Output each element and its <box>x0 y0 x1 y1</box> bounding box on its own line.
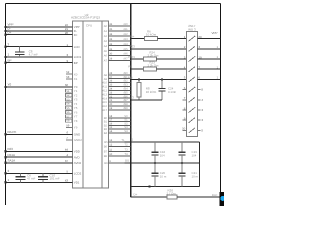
svg-text:2.7 Om: 2.7 Om <box>167 192 177 196</box>
svg-text:VDD: VDD <box>74 150 80 154</box>
svg-text:37: 37 <box>65 159 69 163</box>
IC pin 18 B0 stub to bus <box>104 115 131 120</box>
connector J1 right pin 3 stub <box>197 108 203 112</box>
IC pin 16 B2 stub to bus <box>104 122 131 127</box>
connector J1 left pin 3 <box>184 55 186 59</box>
svg-text:A12: A12 <box>102 90 107 93</box>
svg-text:/B8: /B8 <box>124 103 129 106</box>
wire net Y0 to IC pin 50 <box>4 83 77 90</box>
svg-text:PE: PE <box>128 65 132 69</box>
svg-text:4.7 mF: 4.7 mF <box>29 53 39 57</box>
capacitor C6 47uF <box>16 173 36 182</box>
svg-text:59: 59 <box>66 123 70 127</box>
IC pin 17 B1 stub to bus <box>104 119 131 124</box>
capacitor C21 10uF <box>179 163 199 187</box>
wire net 3 to IC pin 5 <box>4 169 81 176</box>
IC pin 34 A2 stub to bus <box>104 33 131 38</box>
IC pin 30 A6 stub to bus <box>104 53 131 58</box>
capacitor C10 104 <box>38 173 60 182</box>
svg-text:10: 10 <box>182 127 186 131</box>
wire net MB to connector pin 5 <box>128 75 186 80</box>
connector J1 right pin 8 stub <box>197 88 203 92</box>
resistor R6 10 Ohm <box>145 29 158 40</box>
IC pin 52 X0 stub <box>66 70 78 76</box>
svg-text:A3: A3 <box>104 40 108 43</box>
wire bottom rail <box>131 186 200 188</box>
svg-text:X1: X1 <box>74 77 78 81</box>
svg-text:A14: A14 <box>102 97 107 100</box>
IC pin 35 A1 stub to bus <box>104 28 131 33</box>
svg-text:A9: A9 <box>104 78 108 81</box>
svg-text:B1: B1 <box>104 121 108 124</box>
connector J1 right pin 20 wire to frame <box>197 31 220 39</box>
connector J1 right pin 19 wire to frame <box>197 55 220 59</box>
wire net BP to IC pin 9 <box>4 58 77 65</box>
capacitor C18 104 <box>151 142 165 163</box>
wire net KB.PK to IC pin 6 <box>4 130 80 137</box>
svg-text:/B6: /B6 <box>124 95 129 98</box>
svg-text:/A1: /A1 <box>124 28 129 31</box>
svg-text:10 m: 10 m <box>192 174 199 178</box>
wire net PE from bus <box>128 65 143 70</box>
IC pin 12 B6 stub to bus <box>104 144 131 149</box>
connector J1 left pin 8 <box>183 106 187 110</box>
svg-text:B3: B3 <box>104 128 108 131</box>
IC pin 31 A5 stub to bus <box>104 48 131 53</box>
svg-text:K03: K03 <box>8 147 14 151</box>
svg-text:0.1mF: 0.1mF <box>168 90 176 94</box>
IC pin 56 Y6 boxed number <box>66 110 78 114</box>
svg-text:MB: MB <box>128 75 133 79</box>
IC pin 36 A0 stub to bus <box>104 23 131 28</box>
svg-text:X0: X0 <box>74 72 78 76</box>
wire R26 to pad DA+ <box>177 193 220 197</box>
svg-text:A17: A17 <box>102 109 107 112</box>
svg-text:A7: A7 <box>104 60 108 63</box>
svg-text:B2: B2 <box>104 124 108 127</box>
svg-text:A10: A10 <box>102 82 107 85</box>
svg-text:LCD2: LCD2 <box>74 172 82 176</box>
IC pin 54 Y4 boxed number <box>66 102 78 106</box>
IC pin 25 A11 stub to bus <box>102 84 130 89</box>
svg-text:T3: T3 <box>124 148 128 151</box>
svg-text:B5: B5 <box>104 141 108 144</box>
resistor R23 2.2k Ohm <box>144 61 159 72</box>
svg-text:A6: A6 <box>104 55 108 58</box>
svg-text:/B3: /B3 <box>124 84 129 87</box>
svg-text:A13: A13 <box>102 93 107 96</box>
svg-text:19: 19 <box>198 55 202 59</box>
IC pin 58 Y8 boxed number <box>66 119 78 123</box>
pad DA+ with highlight <box>220 192 226 206</box>
svg-text:T1: T1 <box>121 139 125 142</box>
svg-text:BP: BP <box>74 61 78 65</box>
svg-text:T2: T2 <box>124 144 128 147</box>
connector J1 right pin 7 wire to frame <box>197 65 220 69</box>
svg-text:/B2: /B2 <box>124 80 129 83</box>
wire net VPP to IC pin 22 <box>4 23 79 30</box>
IC pin 24 A12 stub to bus <box>102 88 130 93</box>
svg-text:/B5: /B5 <box>124 91 129 94</box>
svg-text:/A4: /A4 <box>124 43 129 46</box>
svg-text:S3: S3 <box>124 126 128 129</box>
resistor R24 2.2k Ohm <box>144 50 159 61</box>
capacitor C19 104 <box>179 142 198 163</box>
svg-text:43: 43 <box>65 179 69 183</box>
connector J1 2N17 IND-3 <box>186 24 197 136</box>
capacitor C8 4.7uF <box>15 47 38 57</box>
resistor R26 2.7 Ohm <box>167 189 178 200</box>
IC U2 box part number AZBC3CD2A-P1FQ <box>71 13 109 188</box>
svg-text:20: 20 <box>198 35 202 39</box>
svg-text:BU: BU <box>125 159 129 163</box>
IC pin 20 A16 stub to bus <box>102 103 130 108</box>
wire net PRN from bus <box>128 55 143 59</box>
IC pin 22 A14 stub to bus <box>102 95 130 100</box>
svg-text:/B9: /B9 <box>124 107 129 110</box>
wire net 1 to IC pin 43 <box>4 178 80 185</box>
svg-text:104: 104 <box>160 153 165 157</box>
svg-text:B9: B9 <box>104 162 108 165</box>
svg-text:GND: GND <box>74 133 80 137</box>
bus net LCD segment vertical <box>130 4 132 198</box>
svg-text:AVD: AVD <box>74 155 80 159</box>
IC pin 53 Y3 boxed number <box>66 98 78 102</box>
svg-text:B6: B6 <box>104 146 108 149</box>
svg-text:A1: A1 <box>104 30 108 33</box>
IC pin 23 A13 stub to bus <box>102 91 130 96</box>
capacitor C20 10uF <box>151 163 166 187</box>
svg-text:T4: T4 <box>124 153 128 156</box>
svg-text:B7: B7 <box>104 150 108 153</box>
resistor R8 10k Ohm <box>137 79 157 100</box>
IC pin 32 A4 stub to bus <box>104 43 131 48</box>
svg-text:2.2k Om: 2.2k Om <box>148 64 160 68</box>
svg-text:PRN: PRN <box>128 55 134 59</box>
svg-text:A15: A15 <box>102 101 107 104</box>
svg-text:PA1A: PA1A <box>8 153 15 157</box>
svg-text:10 kOm: 10 kOm <box>146 90 157 94</box>
svg-text:B8: B8 <box>104 155 108 158</box>
svg-text:/A5: /A5 <box>124 48 129 51</box>
IC pin 57 Y7 boxed number <box>66 115 78 119</box>
IC pin 14 B4 stub to bus <box>104 130 131 135</box>
svg-text:A5: A5 <box>104 50 108 53</box>
svg-text:10 m: 10 m <box>160 174 167 178</box>
svg-text:/A0: /A0 <box>124 23 129 26</box>
svg-text:KB.PK: KB.PK <box>8 130 17 134</box>
svg-text:VD1: VD1 <box>74 181 80 185</box>
IC pin 55 Y5 boxed number <box>66 106 78 110</box>
connector J1 left pin 7 <box>183 96 187 100</box>
svg-text:44: 44 <box>65 148 69 152</box>
svg-text:S1: S1 <box>124 119 128 122</box>
connector J1 right pin 3 stub <box>197 118 203 122</box>
svg-text:A11: A11 <box>102 86 107 89</box>
svg-text:IND 3: IND 3 <box>188 27 196 31</box>
wire R6 to connector pin 1 <box>158 38 187 40</box>
connector J1 left pin 5 <box>184 76 186 80</box>
IC pin 28 A8 stub to bus <box>104 72 131 77</box>
svg-text:50: 50 <box>65 83 69 87</box>
IC pin 15 B3 stub to bus <box>104 126 131 131</box>
svg-text:SA1A: SA1A <box>8 159 16 163</box>
svg-text:/A3: /A3 <box>124 38 129 41</box>
svg-text:/B4: /B4 <box>124 88 129 91</box>
svg-text:LCD1: LCD1 <box>74 55 82 59</box>
svg-text:D+: D+ <box>74 33 78 37</box>
IC pin 10 B8 stub to bus <box>104 153 131 158</box>
IC pin 59 Y9 stub <box>66 123 78 129</box>
wire net D+ from bus <box>131 35 145 39</box>
svg-text:AZBC3CD2A-P1FQ3: AZBC3CD2A-P1FQ3 <box>71 16 100 20</box>
svg-text:47 mF: 47 mF <box>27 177 36 181</box>
IC pin 51 Y1 boxed number <box>66 89 78 93</box>
svg-text:Y9: Y9 <box>74 126 78 130</box>
connector J1 left pin 9 <box>183 117 187 121</box>
svg-text:/B7: /B7 <box>124 99 129 102</box>
wire net SA1A to IC pin 37 <box>4 159 81 166</box>
wire net 1 top rail <box>125 138 200 142</box>
connector J1 right pin 4 stub <box>197 98 203 102</box>
connector J1 right pin 6 wire to frame <box>197 76 220 80</box>
svg-text:GND2: GND2 <box>74 138 82 142</box>
IC pin 13 B5 wire to cap network top rail <box>104 139 125 144</box>
wire right vertical of cap network <box>199 142 201 187</box>
connector J1 left pin 2 <box>184 45 186 49</box>
wire net D+ bottom <box>131 193 167 198</box>
svg-text:/A2: /A2 <box>124 33 129 36</box>
IC pin 29 A7 stub to bus <box>104 58 131 63</box>
IC pin 7 GND2 stub <box>66 136 82 142</box>
wire R24 to connector pin 3 <box>157 58 187 60</box>
svg-text:AVD2: AVD2 <box>74 161 82 165</box>
svg-text:2.2k Om: 2.2k Om <box>148 53 160 57</box>
svg-text:B0: B0 <box>104 117 108 120</box>
svg-text:A16: A16 <box>102 105 107 108</box>
wire net D- to IC pin 21 <box>4 27 77 34</box>
connector J1 left pin 4 <box>184 66 186 70</box>
wire net 1 to IC pin 3 <box>4 53 81 60</box>
connector J1 right pin 3 wire to frame <box>197 45 220 49</box>
svg-text:Y0: Y0 <box>8 83 12 87</box>
connector J1 left pin 1 <box>184 35 186 39</box>
svg-text:B4: B4 <box>104 132 108 135</box>
connector J1 left pin 10 <box>182 127 186 131</box>
svg-text:K03: K03 <box>130 45 136 49</box>
wire net D+ to IC pin 20 <box>4 30 78 37</box>
IC pin 26 A10 stub to bus <box>102 80 130 85</box>
svg-text:A4: A4 <box>104 45 108 48</box>
svg-text:D+: D+ <box>131 35 135 39</box>
svg-text:101 mF: 101 mF <box>50 177 60 181</box>
svg-text:VPP: VPP <box>212 31 218 35</box>
capacitor C24 0.1uF <box>158 79 176 100</box>
svg-text:DA+: DA+ <box>212 193 218 197</box>
svg-text:CPU: CPU <box>86 24 92 28</box>
IC pin 9 B9 wire to cap network mid rail <box>104 160 124 165</box>
IC pin 27 A9 stub to bus <box>104 76 131 81</box>
wire net PA1A to IC pin 4 <box>4 153 79 160</box>
svg-text:A0: A0 <box>104 25 108 28</box>
svg-text:S4: S4 <box>124 130 128 133</box>
IC pin 53 X1 stub <box>66 75 78 81</box>
svg-text:A8: A8 <box>104 74 108 77</box>
svg-text:52: 52 <box>66 70 70 74</box>
svg-text:20: 20 <box>65 31 69 35</box>
svg-text:53: 53 <box>66 75 70 79</box>
wire net 3 rail to bus <box>131 96 162 100</box>
IC pin 33 A3 stub to bus <box>104 38 131 43</box>
svg-text:10 kOm: 10 kOm <box>146 32 157 36</box>
svg-text:S2: S2 <box>124 122 128 125</box>
wire R23 to connector pin 4 <box>157 68 187 70</box>
svg-text:A2: A2 <box>104 35 108 38</box>
svg-text:D+: D+ <box>8 30 12 34</box>
wire net BU mid rail <box>125 159 200 164</box>
wire net 3 to IC pin 1 <box>4 42 79 49</box>
svg-text:LCD: LCD <box>74 45 80 49</box>
svg-text:D+: D+ <box>134 193 138 197</box>
IC pin 21 A15 stub to bus <box>102 99 130 104</box>
svg-text:S0: S0 <box>124 115 128 118</box>
IC pin 11 B7 stub to bus <box>104 148 131 153</box>
wire net K03 to IC pin 44 <box>4 147 80 154</box>
svg-text:Y8: Y8 <box>74 119 78 123</box>
wire net K03 to connector pin 2 <box>130 45 187 49</box>
svg-text:104: 104 <box>192 153 197 157</box>
IC pin 19 A17 stub to bus <box>102 107 130 112</box>
connector J1 right pin 5 stub <box>197 128 203 132</box>
svg-text:BP: BP <box>8 58 12 62</box>
IC pin 52 Y2 boxed number <box>66 93 78 97</box>
connector J1 left pin 6 <box>183 86 187 90</box>
